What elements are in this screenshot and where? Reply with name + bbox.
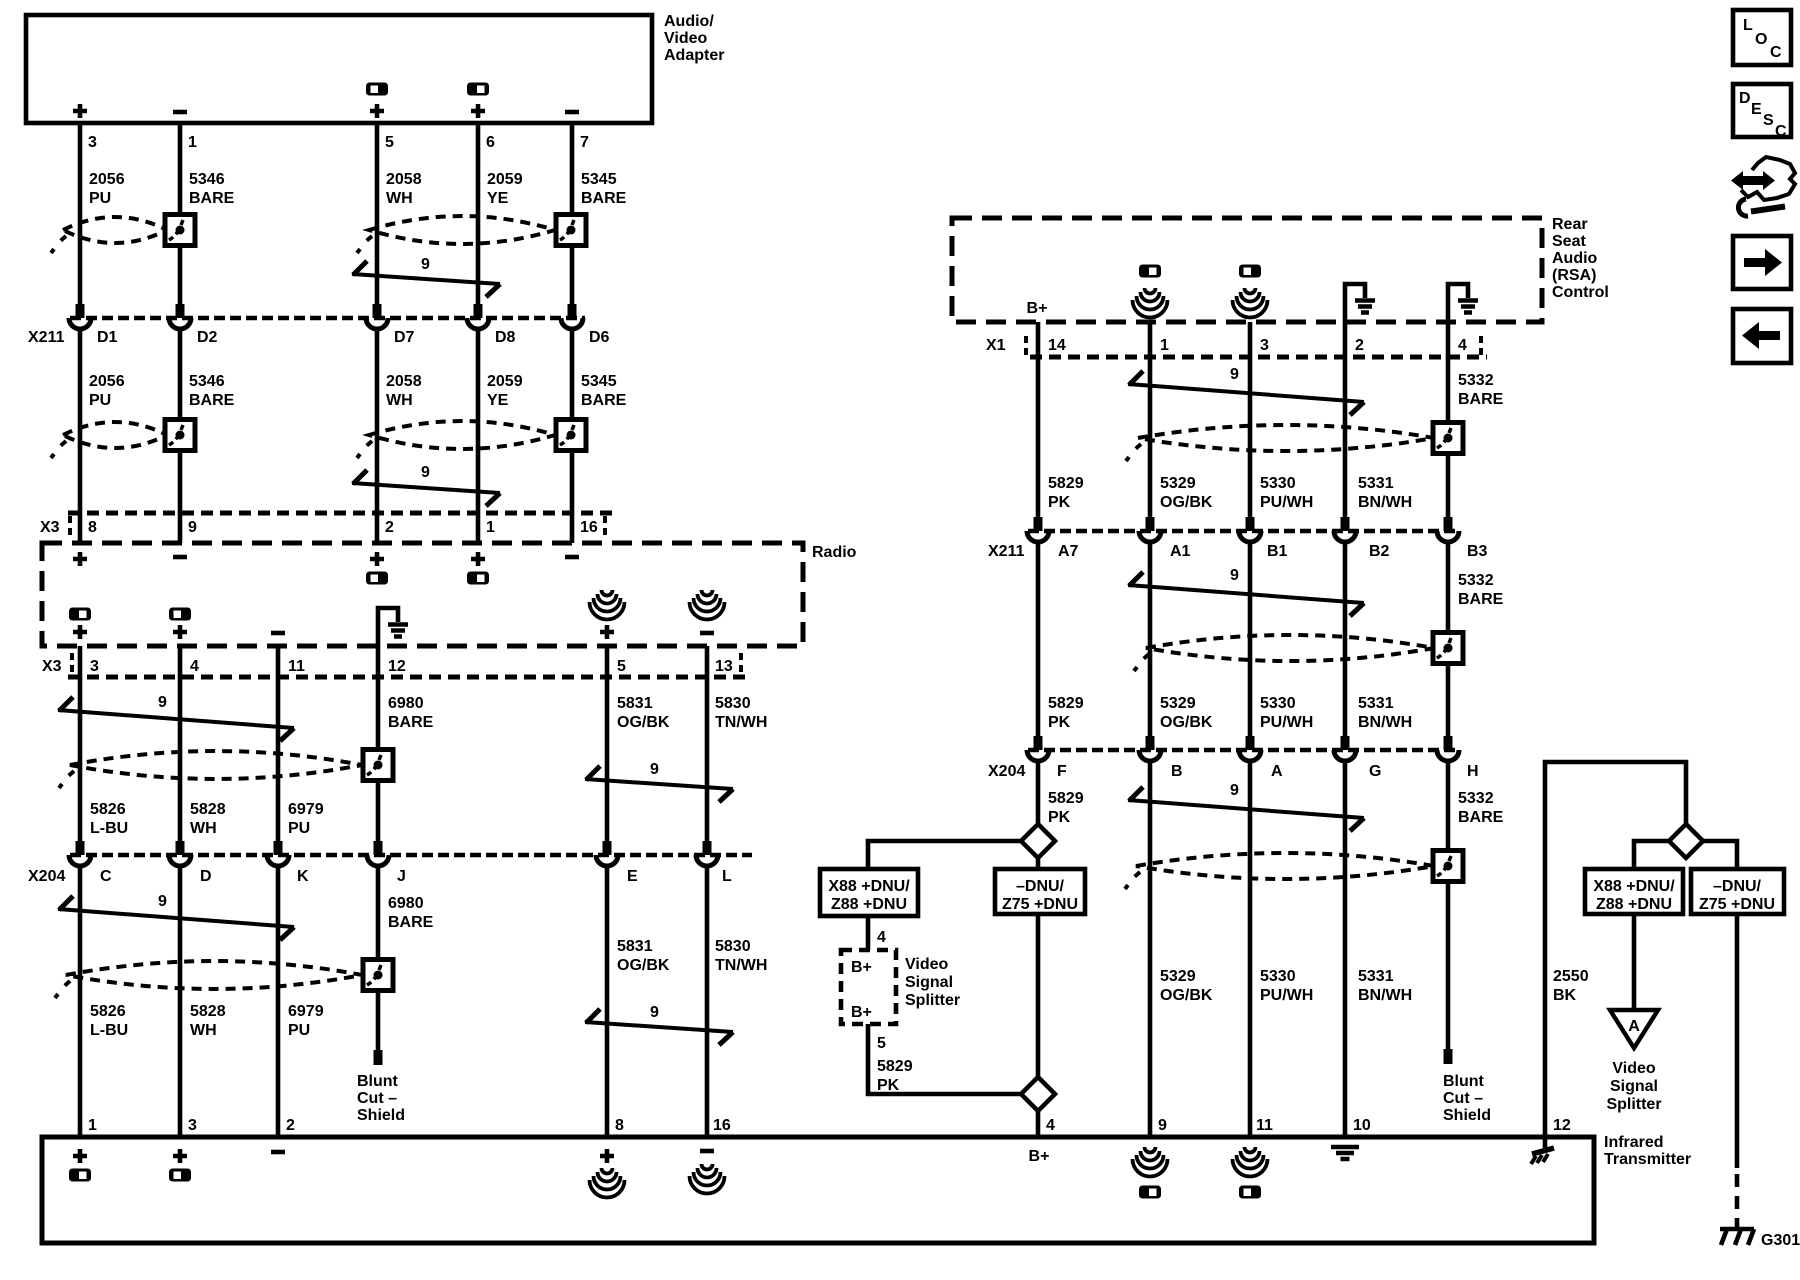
radio pin 3 plus [73,625,87,639]
wire diamond S1 to -DNU box [1036,858,1041,869]
-DNU box (right) [1691,869,1784,914]
X211 B3 female cup [1437,531,1459,542]
svg-text:2: 2 [1355,337,1364,354]
svg-text:Signal: Signal [1610,1078,1658,1095]
wire 5332 BARE X204-H to blunt cut [1446,760,1451,1049]
A/V pin 3 plus symbol [73,104,87,118]
A/V pin 1 minus symbol [173,111,187,113]
X211 D1 female cup [69,318,91,329]
A/V pin 5 RCA jack icon [366,83,388,96]
X1 left divider [1024,336,1028,360]
transmitter pin8 speaker icon [590,1168,625,1198]
radio pin 1 RCA icon [467,572,489,585]
svg-text:Z75 +DNU: Z75 +DNU [1002,896,1078,913]
-DNU box (middle) [995,869,1085,914]
X204 H female cup [1437,750,1459,761]
svg-text:Rear: Rear [1552,216,1588,233]
X204 E female cup [596,855,618,866]
X3 top row right divider [603,516,607,540]
wire 5331 BN/WH X211 to X204 [1343,541,1348,736]
svg-text:Shield: Shield [357,1107,405,1124]
A/V pin 6 plus symbol [471,104,485,118]
wire L to transmitter pin16 [705,865,710,1137]
svg-text:A: A [1628,1018,1640,1035]
svg-text:WH: WH [386,392,413,409]
wire K to transmitter pin2 [276,865,281,1137]
svg-text:8: 8 [88,519,97,536]
svg-text:PU/WH: PU/WH [1260,714,1313,731]
svg-text:5331: 5331 [1358,968,1394,985]
svg-text:Adapter: Adapter [664,47,724,64]
svg-text:TN/WH: TN/WH [715,714,767,731]
radio pin 12 internal ground [378,608,408,646]
wire 5830 TN/WH radio pin13 to X204 [705,646,710,841]
shield symbol on wire 6980 upper [363,750,393,781]
twisted pair ellipse row2 wires 5-7 [369,421,555,449]
svg-text:5329: 5329 [1160,475,1196,492]
splice diamond S2 [1021,1077,1055,1111]
svg-text:L-BU: L-BU [90,820,128,837]
twisted pair ellipse group1 [70,751,362,779]
twisted pair ellipse wires 5-7 [369,216,555,244]
wire 2056 PU X211 to X3 [78,328,83,543]
svg-text:9: 9 [650,761,659,778]
shield symbol row2 on wire 5346 [165,420,195,451]
radio pin 5 speaker icon [590,590,625,620]
svg-text:Seat: Seat [1552,233,1586,250]
svg-text:D: D [200,868,212,885]
Video Signal Splitter dashed box [841,950,896,1024]
svg-text:J: J [397,868,406,885]
radio pin 2 RCA icon [366,572,388,585]
svg-text:Z75 +DNU: Z75 +DNU [1699,896,1775,913]
wire 5331 BN/WH X1-2 to X211 [1343,322,1348,517]
X204 F male pin [1034,736,1043,750]
pin number labels A/V [88,134,589,151]
transmitter pin16 speaker icon [690,1164,725,1194]
svg-text:5831: 5831 [617,938,653,955]
svg-text:F: F [1057,763,1067,780]
RSA pin4 internal ground [1448,284,1478,322]
svg-text:PK: PK [1048,494,1071,511]
svg-text:YE: YE [487,190,509,207]
shield symbol row2 on wire 5345 [556,420,586,451]
svg-text:PU: PU [89,392,111,409]
X204 K female cup [267,855,289,866]
svg-text:Z88 +DNU: Z88 +DNU [1596,896,1672,913]
wire J to blunt cut [376,865,381,1050]
shield symbol right row1 on wire 5332 [1433,423,1463,454]
RSA pin3 RCA icon [1239,265,1261,278]
connector X211 row (top) dashed line [70,316,585,321]
transmitter pin12 wire stub [1543,1137,1548,1152]
svg-text:H: H [1467,763,1479,780]
svg-text:B1: B1 [1267,543,1288,560]
wire E to transmitter pin8 [605,865,610,1137]
X211 connector labels [28,329,610,346]
wire labels row 1 [89,171,627,207]
svg-text:BN/WH: BN/WH [1358,987,1412,1004]
svg-text:–DNU/: –DNU/ [1016,878,1065,895]
transmitter pin11 speaker icon [1233,1147,1268,1177]
wire labels right row1 [1048,475,1412,511]
svg-text:6979: 6979 [288,1003,324,1020]
radio pin 1 plus [471,552,485,566]
X211 D8 male pin [474,304,483,318]
twisted wire indicator 9 arrow (A/V to X211) [352,261,500,297]
twisted wire indicator 9 arrow (X211 to X3) [352,470,500,506]
X204 B male pin [1146,736,1155,750]
svg-text:5: 5 [617,658,626,675]
twisted wire indicator 9 arrow (radio to X204 group1) [58,697,294,741]
svg-text:5346: 5346 [189,171,225,188]
svg-text:2058: 2058 [386,373,422,390]
svg-text:Signal: Signal [905,974,953,991]
X211 B2 male pin [1341,517,1350,531]
connector X3 top row dotted line [68,511,612,516]
svg-text:Video: Video [905,956,949,973]
X204 J female cup [367,855,389,866]
svg-text:X211: X211 [988,543,1025,560]
wire 5829 PK X1-14 to X211 [1036,322,1041,517]
wire label 5332 BARE row2 [1458,572,1504,608]
Radio dashed box [42,543,803,646]
svg-text:D6: D6 [589,329,610,346]
radio pin 3 RCA icon [69,608,91,621]
X211 A7 male pin [1034,517,1043,531]
transmitter pin1 RCA icon [69,1169,91,1182]
svg-text:5828: 5828 [190,801,226,818]
svg-text:2059: 2059 [487,373,523,390]
svg-text:4: 4 [877,929,886,946]
X211 D6 male pin [568,304,577,318]
svg-text:5330: 5330 [1260,695,1296,712]
wire 5329 OG/BK X1-1 to X211 [1148,322,1153,517]
svg-text:OG/BK: OG/BK [1160,987,1213,1004]
X211 A7 female cup [1027,531,1049,542]
twisted pair ellipse right row1 [1138,425,1434,451]
svg-text:11: 11 [288,658,305,675]
svg-text:1: 1 [88,1117,97,1134]
X204 L male pin [703,841,712,855]
svg-text:5828: 5828 [190,1003,226,1020]
RSA pin2 internal ground [1345,284,1375,322]
double arrow wrench icon [1731,157,1795,216]
radio pin 5 plus [600,625,614,639]
svg-text:9: 9 [650,1004,659,1021]
svg-text:9: 9 [188,519,197,536]
svg-text:9: 9 [421,256,430,273]
svg-text:Blunt: Blunt [1443,1073,1485,1090]
svg-text:X3: X3 [42,658,62,675]
wire label 5332 BARE row3 [1458,790,1504,826]
svg-text:2: 2 [286,1117,295,1134]
svg-text:WH: WH [190,1022,217,1039]
transmitter pin number labels (right) [1046,1117,1571,1134]
connector X211 row (right) dashed line [1028,529,1460,534]
svg-text:5829: 5829 [1048,475,1084,492]
svg-text:16: 16 [713,1117,731,1134]
twisted wire indicator 9 arrow (X211 to X204 right) [1128,572,1364,616]
svg-text:Cut –: Cut – [357,1090,397,1107]
svg-text:Shield: Shield [1443,1107,1491,1124]
transmitter pin1 plus [73,1149,87,1163]
X211 A1 female cup [1139,531,1161,542]
wire 2056 PU from A/V pin 3 [78,123,83,304]
svg-text:BARE: BARE [1458,809,1504,826]
wire 2059 YE from A/V pin 6 [476,123,481,304]
A/V pin 5 plus symbol [370,104,384,118]
wire 5826 L-BU radio pin3 to X204 [78,646,83,841]
wire label 6980 BARE upper [388,695,434,731]
radio pin 9 minus [173,556,187,558]
X211 D2 female cup [169,318,191,329]
wire 5329 OG/BK X204-B to transmitter pin9 [1148,760,1153,1137]
X211 D2 male pin [176,304,185,318]
svg-text:2058: 2058 [386,171,422,188]
X211 right labels [988,543,1488,560]
wire 6980 BARE radio pin12 to X204 [376,646,381,841]
wire 5330 PU/WH X211 to X204 [1248,541,1253,736]
svg-text:14: 14 [1048,337,1066,354]
svg-text:L-BU: L-BU [90,1022,128,1039]
RSA pin1 RCA icon [1139,265,1161,278]
Blunt Cut Shield label (left) [357,1073,405,1124]
X1 right divider [1479,336,1483,360]
svg-text:9: 9 [1158,1117,1167,1134]
svg-text:Transmitter: Transmitter [1604,1151,1691,1168]
svg-text:WH: WH [190,820,217,837]
svg-text:B3: B3 [1467,543,1488,560]
svg-text:6979: 6979 [288,801,324,818]
svg-text:A: A [1271,763,1283,780]
svg-text:BN/WH: BN/WH [1358,714,1412,731]
X204 D male pin [176,841,185,855]
transmitter pin number labels (left) [88,1117,731,1134]
svg-text:L: L [722,868,732,885]
X204 left labels [28,868,732,885]
RSA Control dashed box [952,218,1542,322]
wire 2058 WH X211 to X3 [375,328,380,543]
svg-text:5: 5 [877,1035,886,1052]
shield symbol on wire 5345 [556,215,586,246]
svg-text:BK: BK [1553,987,1577,1004]
svg-text:7: 7 [580,134,589,151]
wire 5345 BARE X211 to X3 [570,328,575,543]
transmitter pin2 minus [271,1151,285,1153]
wire 5332 BARE X211 to X204 [1446,541,1451,736]
svg-text:12: 12 [1553,1117,1571,1134]
svg-text:5830: 5830 [715,938,751,955]
svg-text:2056: 2056 [89,171,125,188]
svg-text:Blunt: Blunt [357,1073,399,1090]
svg-text:PK: PK [877,1077,900,1094]
svg-text:WH: WH [386,190,413,207]
X3 bottom row labels [42,658,733,675]
right arrow icon box [1733,236,1791,289]
X211 D7 female cup [366,318,388,329]
wire 5346 BARE X211 to X3 [178,328,183,543]
X211 B2 female cup [1334,531,1356,542]
svg-text:G: G [1369,763,1381,780]
svg-text:4: 4 [1458,337,1467,354]
radio pin 13 speaker icon [690,590,725,620]
svg-text:10: 10 [1353,1117,1371,1134]
wire X88 box to splitter pin4 [866,916,871,950]
radio pin 2 plus [370,552,384,566]
Infrared Transmitter box [42,1137,1594,1243]
transmitter pin16 minus [700,1150,714,1152]
svg-text:5826: 5826 [90,801,126,818]
svg-text:Audio/: Audio/ [664,13,714,30]
svg-text:B+: B+ [1027,300,1048,317]
wire label 5830 TN/WH lower [715,938,767,974]
wire 5331 BN/WH X204-G to transmitter pin10 [1343,760,1348,1137]
X3 top row labels [40,519,598,536]
RSA pin1 speaker icon [1133,288,1168,318]
wire labels 5826 5828 6979 upper [90,801,324,837]
radio pin 13 minus [700,632,714,634]
svg-text:X88 +DNU/: X88 +DNU/ [828,878,910,895]
svg-text:5329: 5329 [1160,695,1196,712]
transmitter pin8 plus [600,1149,614,1163]
svg-text:5331: 5331 [1358,475,1394,492]
svg-text:9: 9 [158,893,167,910]
X204 A female cup [1239,750,1261,761]
wire label 5332 BARE row1 [1458,372,1504,408]
svg-text:13: 13 [715,658,733,675]
wire 6979 PU radio pin11 to X204 [276,646,281,841]
X204 B female cup [1139,750,1161,761]
svg-text:C: C [100,868,112,885]
radio pin 11 minus [271,632,285,634]
wire labels right row4 [1160,968,1589,1004]
shield symbol right row2 on wire 5332 [1433,633,1463,664]
dashed wire to G301 [1735,1174,1740,1228]
wire label 5830 TN/WH upper [715,695,767,731]
A/V pin 7 minus symbol [565,111,579,113]
svg-text:Z88 +DNU: Z88 +DNU [831,896,907,913]
X211 D8 female cup [467,318,489,329]
svg-text:BARE: BARE [189,392,235,409]
svg-text:L: L [1743,17,1753,34]
Video Signal Splitter label [905,956,960,1009]
svg-text:9: 9 [1230,567,1239,584]
svg-text:PU/WH: PU/WH [1260,494,1313,511]
connector X3 bottom row dotted line [68,675,748,680]
wire 5829 PK X211 to X204 [1036,541,1041,736]
transmitter pin3 RCA icon [169,1169,191,1182]
svg-text:E: E [1751,101,1762,118]
wire C to transmitter pin1 [78,865,83,1137]
svg-text:2550: 2550 [1553,968,1589,985]
svg-text:5830: 5830 [715,695,751,712]
svg-text:X211: X211 [28,329,65,346]
svg-text:Video: Video [1612,1060,1656,1077]
wire 2058 WH from A/V pin 5 [375,123,380,304]
svg-text:X1: X1 [986,337,1006,354]
svg-text:4: 4 [190,658,199,675]
transmitter pin11 RCA icon [1239,1186,1261,1199]
twisted pair ellipse right row2 [1146,635,1434,661]
shield symbol on wire 6980 lower [363,960,393,991]
svg-text:G301: G301 [1761,1232,1800,1249]
svg-text:3: 3 [1260,337,1269,354]
svg-text:S: S [1763,112,1774,129]
svg-text:Infrared: Infrared [1604,1134,1664,1151]
svg-text:3: 3 [88,134,97,151]
svg-text:A7: A7 [1058,543,1079,560]
wire from diamond S1 to X88 DNU box left [868,841,1021,869]
svg-text:9: 9 [421,464,430,481]
svg-text:PU: PU [288,820,310,837]
svg-text:X204: X204 [988,763,1025,780]
svg-text:8: 8 [615,1117,624,1134]
wire labels 5826 5828 6979 lower [90,1003,324,1039]
connector X204 row (left) dashed line [70,853,752,858]
svg-text:(RSA): (RSA) [1552,267,1596,284]
svg-text:BARE: BARE [388,714,434,731]
wire diamond S2 to transmitter pin4 [1036,1111,1041,1137]
wire label 5831 OG/BK lower [617,938,670,974]
svg-text:1: 1 [188,134,197,151]
wire -DNU right box to G301 [1735,914,1740,1168]
svg-text:Splitter: Splitter [905,992,960,1009]
splice diamond S1 [1021,824,1055,858]
svg-text:6980: 6980 [388,695,424,712]
Audio/Video Adapter label [664,13,724,64]
X211 D6 female cup [561,318,583,329]
X1 labels [986,337,1467,354]
svg-text:X88 +DNU/: X88 +DNU/ [1593,878,1675,895]
svg-text:Cut –: Cut – [1443,1090,1483,1107]
X88 DNU box (left) [820,869,918,916]
splice diamond S3 [1669,824,1703,858]
X211 B1 male pin [1246,517,1255,531]
Video Signal Splitter label (right) [1606,1060,1661,1113]
svg-text:B: B [1171,763,1183,780]
svg-text:5831: 5831 [617,695,653,712]
X211 A1 male pin [1146,517,1155,531]
svg-text:3: 3 [188,1117,197,1134]
svg-text:4: 4 [1046,1117,1055,1134]
svg-text:9: 9 [1230,782,1239,799]
svg-text:OG/BK: OG/BK [1160,494,1213,511]
svg-text:A1: A1 [1170,543,1191,560]
RSA Control label [1552,216,1609,301]
svg-text:9: 9 [158,694,167,711]
X204 C male pin [76,841,85,855]
transmitter pin3 plus [173,1149,187,1163]
X204 J male pin [374,841,383,855]
X204 C female cup [69,855,91,866]
twisted wire indicator 9 arrow (X204 to transmitter group1) [58,896,294,940]
svg-text:5332: 5332 [1458,572,1494,589]
svg-text:B+: B+ [851,1004,872,1021]
svg-text:2056: 2056 [89,373,125,390]
connector X204 row (right) dashed line [1028,748,1460,753]
X204 E male pin [603,841,612,855]
svg-text:PU: PU [89,190,111,207]
svg-text:5829: 5829 [1048,790,1084,807]
X211 B1 female cup [1239,531,1261,542]
svg-text:3: 3 [90,658,99,675]
wire label 5829 PK row3 [1048,790,1084,826]
wire X88 right box to splitter triangle [1632,914,1637,1010]
svg-text:OG/BK: OG/BK [617,714,670,731]
svg-text:9: 9 [1230,366,1239,383]
svg-text:5346: 5346 [189,373,225,390]
